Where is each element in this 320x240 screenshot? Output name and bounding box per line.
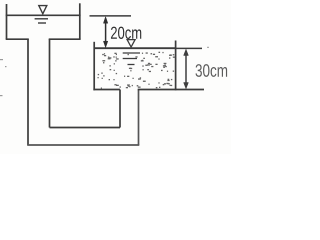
left narrow tube left wall <box>27 39 29 145</box>
left vessel right wall <box>79 3 81 39</box>
left vessel bottom shelf left segment <box>6 38 29 40</box>
right container bottom right segment with 30cm tick extension <box>138 89 204 91</box>
connecting channel inner bottom <box>50 127 121 129</box>
left vessel left wall <box>6 4 8 39</box>
30cm label <box>196 64 228 77</box>
20cm dimension arrow <box>103 17 107 48</box>
right riser tube left wall <box>119 90 121 128</box>
left vessel water surface line <box>6 14 81 16</box>
water surface symbol right (triangle + dashes) <box>123 40 140 65</box>
left narrow tube right wall <box>49 39 51 127</box>
30cm top tick <box>176 47 202 49</box>
right riser tube right wall <box>138 90 140 146</box>
20cm label <box>111 27 141 39</box>
connecting channel outer bottom <box>27 144 139 146</box>
liquid stipple texture <box>98 52 176 89</box>
water surface symbol left (triangle + dashes) <box>35 6 48 23</box>
right container bottom left segment <box>93 89 120 91</box>
right container left wall <box>93 42 95 91</box>
right container water surface line <box>94 47 175 49</box>
left vessel bottom shelf right segment <box>49 38 81 40</box>
right container right wall <box>175 41 177 91</box>
30cm dimension arrow <box>184 49 189 89</box>
faint scan specks <box>0 47 209 96</box>
20cm reference line <box>90 15 132 17</box>
